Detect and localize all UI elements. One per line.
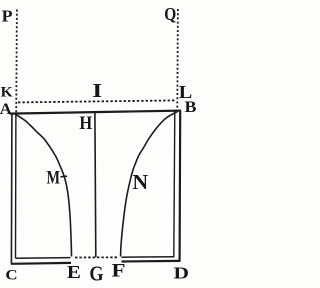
wire E-G-F bottom dotted (75, 256, 119, 258)
wire dotted vertical P-K-A (15, 10, 18, 113)
curve B-N-F (121, 112, 178, 257)
svg-text:A: A (0, 101, 12, 118)
wire dotted horizontal K-I-L (18, 100, 176, 102)
wire B-D right inner edge (174, 111, 175, 257)
svg-text:P: P (2, 7, 13, 26)
svg-text:M: M (47, 167, 61, 188)
wire H-G middle vertical (94, 112, 97, 257)
svg-text:N: N (132, 172, 148, 194)
curve A-M-E (15, 114, 72, 257)
wire dotted vertical Q-L-B (176, 9, 179, 111)
svg-text:G: G (89, 263, 103, 285)
svg-text:C: C (5, 267, 17, 284)
wire C-E bottom outer (11, 262, 71, 265)
svg-text:Q: Q (164, 4, 176, 24)
svg-text:I: I (92, 80, 102, 102)
wire A-C left inner edge (15, 113, 17, 258)
svg-text:D: D (174, 264, 190, 283)
node M tick (61, 175, 68, 178)
wire A-C left outer edge (10, 113, 13, 263)
wire F-D bottom inner (122, 256, 175, 258)
wire F-D bottom outer (122, 260, 181, 263)
svg-text:K: K (1, 85, 13, 101)
svg-text:B: B (185, 99, 198, 116)
svg-text:F: F (112, 261, 126, 282)
wire B-D right outer edge (179, 111, 182, 261)
svg-text:H: H (79, 113, 92, 134)
svg-text:E: E (67, 262, 81, 282)
wire A-B top line (10, 111, 181, 114)
wire C-E bottom inner (16, 257, 71, 260)
